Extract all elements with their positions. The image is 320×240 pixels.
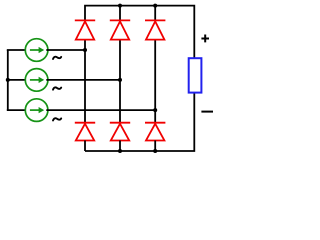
node junction phase3-leg3 bbox=[153, 108, 157, 112]
wire phase3 bbox=[46, 109, 155, 111]
diode D2 (leg3 bottom) bbox=[145, 123, 165, 141]
wire stub source2 left bbox=[8, 79, 27, 81]
diode D5 (leg3 top) bbox=[145, 20, 165, 39]
load resistor R bbox=[189, 58, 202, 92]
wire phase1 bbox=[46, 49, 85, 51]
node junction bottom rail leg3 bbox=[153, 149, 157, 153]
wire leg1 bottom stub bbox=[84, 141, 86, 152]
AC source V2 bbox=[25, 69, 48, 92]
wire leg2 bottom stub bbox=[119, 141, 121, 152]
label ~ of source V3 bbox=[53, 118, 61, 120]
label + terminal bbox=[201, 35, 209, 43]
node junction top rail leg2 bbox=[118, 4, 122, 8]
wire leg1 vertical bbox=[84, 40, 86, 123]
wire leg3 vertical bbox=[154, 6, 156, 123]
wire leg3 bottom stub bbox=[154, 141, 156, 152]
wire top rail bbox=[85, 6, 194, 59]
wire phase2 bbox=[46, 79, 120, 81]
diode D4 (leg1 bottom) bbox=[75, 123, 95, 141]
wire stub source1 left bbox=[7, 49, 27, 51]
diode D6 (leg2 bottom) bbox=[110, 123, 130, 141]
node junction phase1-leg1 bbox=[83, 48, 87, 52]
AC source V1 bbox=[25, 39, 48, 62]
node junction bottom rail leg2 bbox=[118, 149, 122, 153]
label ~ of source V2 bbox=[53, 87, 61, 89]
AC source V3 bbox=[25, 99, 48, 122]
label ~ of source V1 bbox=[53, 57, 61, 59]
wire bottom rail bbox=[85, 93, 194, 151]
node junction left bus bbox=[6, 78, 10, 82]
node junction phase2-leg2 bbox=[118, 78, 122, 82]
diode D1 (leg1 top) bbox=[75, 20, 95, 39]
node junction top rail leg3 bbox=[153, 4, 157, 8]
wire leg2 vertical bbox=[119, 6, 121, 123]
wire left bus bbox=[7, 50, 9, 110]
label - terminal bbox=[201, 111, 213, 113]
wire stub source3 left bbox=[7, 109, 27, 111]
diode D3 (leg2 top) bbox=[110, 20, 130, 39]
